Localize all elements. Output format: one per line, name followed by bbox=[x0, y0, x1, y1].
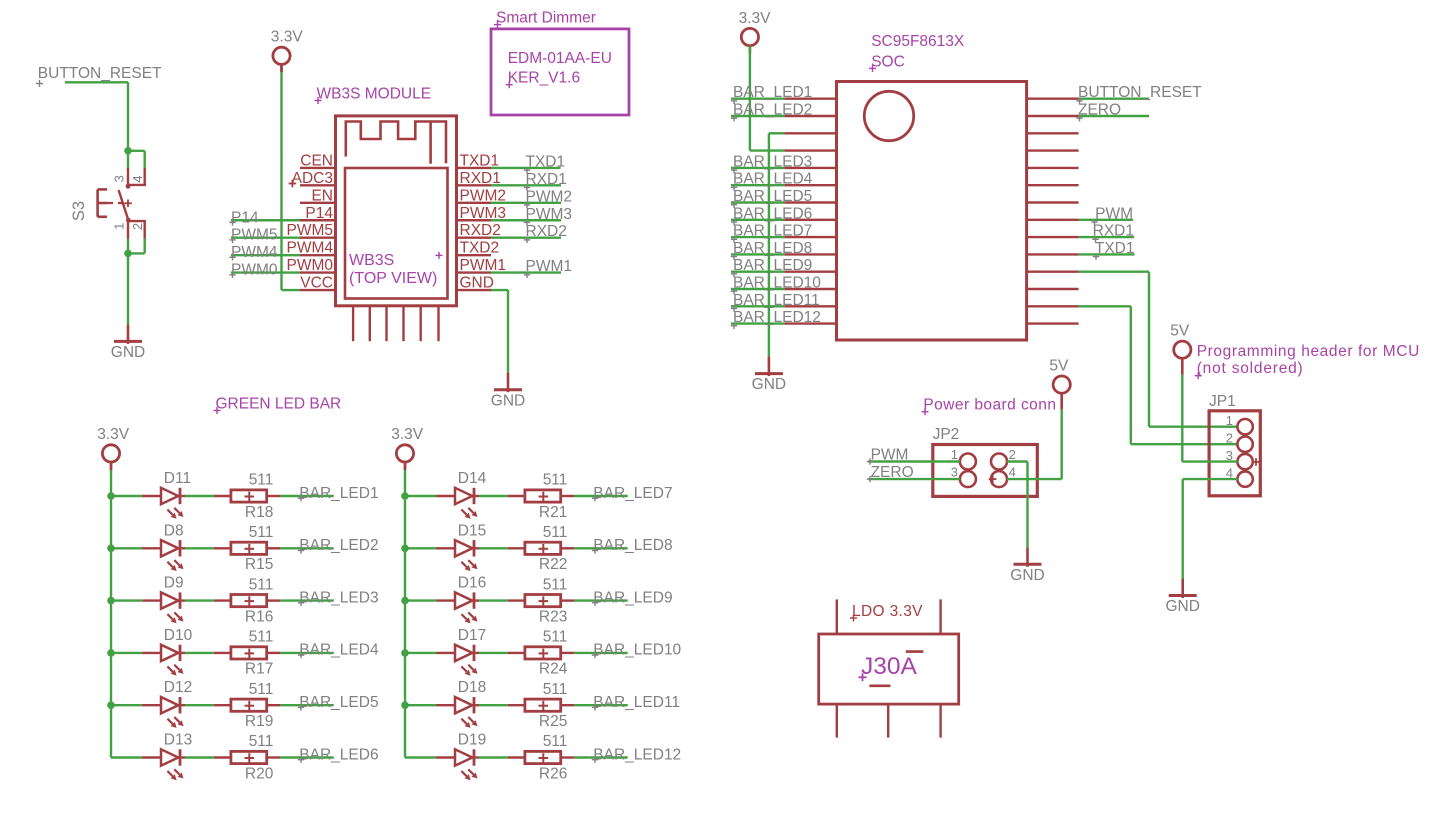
svg-text:511: 511 bbox=[249, 576, 274, 593]
svg-text:R18: R18 bbox=[245, 504, 273, 521]
svg-text:BAR_LED3: BAR_LED3 bbox=[299, 589, 378, 606]
svg-text:JP2: JP2 bbox=[933, 426, 960, 443]
svg-text:Power board conn: Power board conn bbox=[923, 397, 1056, 414]
svg-text:3.3V: 3.3V bbox=[97, 426, 130, 443]
svg-text:4: 4 bbox=[1009, 465, 1016, 480]
svg-text:D9: D9 bbox=[164, 575, 184, 592]
svg-text:511: 511 bbox=[543, 472, 568, 489]
svg-text:511: 511 bbox=[249, 629, 274, 646]
svg-text:BAR_LED7: BAR_LED7 bbox=[733, 223, 812, 240]
svg-text:D12: D12 bbox=[164, 679, 192, 696]
svg-text:R19: R19 bbox=[245, 713, 273, 730]
svg-text:BAR_LED2: BAR_LED2 bbox=[733, 102, 812, 119]
svg-text:2: 2 bbox=[1009, 447, 1016, 462]
svg-text:GND: GND bbox=[111, 344, 145, 361]
svg-text:5V: 5V bbox=[1049, 357, 1069, 374]
svg-text:BAR_LED12: BAR_LED12 bbox=[593, 746, 681, 763]
svg-text:3: 3 bbox=[111, 175, 126, 182]
svg-text:1: 1 bbox=[951, 447, 958, 462]
svg-text:GND: GND bbox=[491, 392, 525, 409]
svg-text:PWM2: PWM2 bbox=[526, 188, 573, 205]
svg-text:GND: GND bbox=[752, 376, 786, 393]
svg-text:EDM-01AA-EU: EDM-01AA-EU bbox=[508, 50, 612, 67]
svg-text:BAR_LED3: BAR_LED3 bbox=[733, 153, 812, 170]
svg-text:ADC3: ADC3 bbox=[292, 170, 333, 187]
svg-text:511: 511 bbox=[543, 733, 568, 750]
svg-text:BAR_LED5: BAR_LED5 bbox=[733, 188, 812, 205]
svg-text:BAR_LED9: BAR_LED9 bbox=[733, 257, 812, 274]
svg-text:BAR_LED10: BAR_LED10 bbox=[733, 275, 821, 292]
svg-text:PWM: PWM bbox=[1095, 205, 1133, 222]
svg-text:511: 511 bbox=[543, 576, 568, 593]
svg-text:RXD1: RXD1 bbox=[1093, 223, 1134, 240]
svg-text:JP1: JP1 bbox=[1209, 393, 1236, 410]
svg-text:BAR_LED4: BAR_LED4 bbox=[733, 171, 813, 188]
svg-text:GND: GND bbox=[460, 275, 494, 292]
svg-text:EN: EN bbox=[311, 187, 333, 204]
svg-text:SOC: SOC bbox=[871, 53, 905, 70]
svg-text:D16: D16 bbox=[458, 575, 486, 592]
svg-text:3.3V: 3.3V bbox=[271, 29, 304, 46]
svg-text:(not soldered): (not soldered) bbox=[1197, 360, 1304, 377]
svg-text:R26: R26 bbox=[539, 765, 567, 782]
svg-text:Programming header for MCU: Programming header for MCU bbox=[1197, 343, 1420, 360]
svg-text:BUTTON_RESET: BUTTON_RESET bbox=[1078, 84, 1202, 101]
svg-text:VCC: VCC bbox=[300, 275, 333, 292]
svg-text:PWM3: PWM3 bbox=[526, 206, 573, 223]
svg-text:BAR_LED12: BAR_LED12 bbox=[733, 309, 821, 326]
svg-text:PWM5: PWM5 bbox=[231, 227, 278, 244]
svg-text:511: 511 bbox=[249, 681, 274, 698]
svg-text:BAR_LED8: BAR_LED8 bbox=[733, 240, 812, 257]
svg-text:D19: D19 bbox=[458, 732, 486, 749]
svg-text:511: 511 bbox=[249, 472, 274, 489]
svg-text:RXD1: RXD1 bbox=[526, 171, 567, 188]
svg-text:GND: GND bbox=[1010, 567, 1044, 584]
svg-text:R16: R16 bbox=[245, 608, 273, 625]
svg-text:R24: R24 bbox=[539, 661, 568, 678]
svg-text:TXD1: TXD1 bbox=[526, 153, 566, 170]
svg-text:(TOP VIEW): (TOP VIEW) bbox=[349, 270, 437, 287]
svg-text:ZERO: ZERO bbox=[871, 464, 914, 481]
svg-text:3.3V: 3.3V bbox=[391, 426, 424, 443]
svg-text:R20: R20 bbox=[245, 765, 274, 782]
svg-text:BAR_LED4: BAR_LED4 bbox=[299, 642, 379, 659]
svg-text:BAR_LED10: BAR_LED10 bbox=[593, 642, 681, 659]
svg-text:511: 511 bbox=[543, 629, 568, 646]
svg-text:3: 3 bbox=[951, 465, 958, 480]
svg-text:BAR_LED6: BAR_LED6 bbox=[733, 205, 812, 222]
svg-text:1: 1 bbox=[1226, 413, 1233, 428]
svg-text:SC95F8613X: SC95F8613X bbox=[871, 33, 965, 50]
svg-text:BAR_LED1: BAR_LED1 bbox=[299, 485, 378, 502]
svg-text:511: 511 bbox=[249, 733, 274, 750]
svg-text:D13: D13 bbox=[164, 732, 192, 749]
svg-text:BAR_LED11: BAR_LED11 bbox=[733, 292, 820, 309]
svg-text:P14: P14 bbox=[305, 205, 333, 222]
svg-text:R15: R15 bbox=[245, 556, 273, 573]
svg-text:BAR_LED8: BAR_LED8 bbox=[593, 537, 672, 554]
svg-text:S3: S3 bbox=[70, 201, 88, 221]
svg-text:D14: D14 bbox=[458, 470, 487, 487]
svg-text:CEN: CEN bbox=[300, 152, 333, 169]
svg-text:BAR_LED2: BAR_LED2 bbox=[299, 537, 378, 554]
svg-text:2: 2 bbox=[1226, 431, 1233, 446]
svg-text:R25: R25 bbox=[539, 713, 567, 730]
svg-text:BAR_LED7: BAR_LED7 bbox=[593, 485, 672, 502]
svg-text:D15: D15 bbox=[458, 522, 486, 539]
svg-text:Smart Dimmer: Smart Dimmer bbox=[496, 9, 596, 26]
svg-text:PWM4: PWM4 bbox=[231, 244, 278, 261]
svg-text:PWM0: PWM0 bbox=[231, 262, 278, 279]
svg-text:BAR_LED9: BAR_LED9 bbox=[593, 589, 672, 606]
svg-text:BAR_LED1: BAR_LED1 bbox=[733, 84, 812, 101]
svg-text:TXD2: TXD2 bbox=[460, 240, 500, 257]
svg-text:KER_V1.6: KER_V1.6 bbox=[508, 70, 580, 87]
svg-text:WB3S: WB3S bbox=[349, 252, 394, 269]
svg-text:P14: P14 bbox=[231, 209, 259, 226]
svg-text:BAR_LED6: BAR_LED6 bbox=[299, 746, 378, 763]
svg-text:2: 2 bbox=[130, 223, 145, 230]
svg-text:PWM1: PWM1 bbox=[526, 258, 573, 275]
svg-text:ZERO: ZERO bbox=[1078, 102, 1121, 119]
svg-text:D18: D18 bbox=[458, 679, 486, 696]
svg-text:GREEN LED BAR: GREEN LED BAR bbox=[216, 395, 342, 412]
svg-text:D8: D8 bbox=[164, 522, 184, 539]
svg-text:511: 511 bbox=[543, 681, 568, 698]
svg-text:5V: 5V bbox=[1170, 323, 1190, 340]
svg-text:4: 4 bbox=[130, 175, 145, 182]
svg-text:BAR_LED11: BAR_LED11 bbox=[593, 694, 680, 711]
svg-text:D17: D17 bbox=[458, 627, 486, 644]
svg-text:1: 1 bbox=[111, 223, 126, 230]
svg-text:D11: D11 bbox=[164, 470, 191, 487]
svg-text:R22: R22 bbox=[539, 556, 567, 573]
svg-text:511: 511 bbox=[249, 524, 274, 541]
svg-text:R17: R17 bbox=[245, 661, 273, 678]
svg-text:D10: D10 bbox=[164, 627, 193, 644]
svg-text:TXD1: TXD1 bbox=[1095, 240, 1135, 257]
svg-text:WB3S MODULE: WB3S MODULE bbox=[317, 85, 432, 102]
svg-text:511: 511 bbox=[543, 524, 568, 541]
svg-text:BUTTON_RESET: BUTTON_RESET bbox=[38, 65, 162, 82]
svg-text:LDO 3.3V: LDO 3.3V bbox=[852, 603, 923, 620]
svg-text:R21: R21 bbox=[539, 504, 567, 521]
svg-text:J30A: J30A bbox=[861, 653, 918, 680]
svg-text:GND: GND bbox=[1165, 598, 1199, 615]
svg-text:3.3V: 3.3V bbox=[739, 10, 772, 27]
svg-text:RXD2: RXD2 bbox=[526, 223, 567, 240]
svg-text:R23: R23 bbox=[539, 608, 567, 625]
svg-text:BAR_LED5: BAR_LED5 bbox=[299, 694, 378, 711]
svg-text:PWM: PWM bbox=[871, 446, 909, 463]
